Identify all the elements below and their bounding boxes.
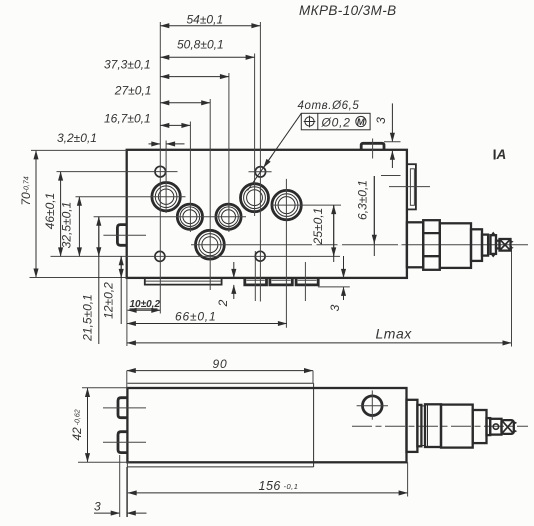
body outline (top view) xyxy=(127,150,407,278)
axis line P6/stack y=244.7 xyxy=(191,244,528,246)
svg-text:4отв.Ø6,5: 4отв.Ø6,5 xyxy=(298,100,360,112)
left tab (top view) xyxy=(117,225,127,246)
svg-text:МКРВ-10/3М-В: МКРВ-10/3М-В xyxy=(299,3,397,18)
svg-text:66±0,1: 66±0,1 xyxy=(175,310,216,324)
right slot plate xyxy=(407,164,416,209)
sleeve (front) xyxy=(441,405,473,448)
left tab centerline xyxy=(103,234,146,236)
dim 10±0,2 xyxy=(128,299,161,310)
foot bracket B2 xyxy=(270,278,292,285)
hole H3 xyxy=(155,251,165,261)
right slot centerline xyxy=(389,186,430,188)
flange plate xyxy=(407,400,418,452)
svg-text:А: А xyxy=(496,147,507,162)
sleeve xyxy=(440,223,471,268)
svg-text:3: 3 xyxy=(328,304,342,311)
extension line col x=228.9 xyxy=(228,73,230,232)
foot centerline f1 xyxy=(254,251,256,301)
dim 70 -0,74 xyxy=(19,150,127,277)
pad top line xyxy=(127,382,313,384)
svg-text:3: 3 xyxy=(374,117,388,124)
dim 21,5±0,1 xyxy=(81,217,99,344)
valve stack (top view): neck xyxy=(407,222,423,267)
tip neck xyxy=(496,241,500,249)
svg-text:Ø0,2: Ø0,2 xyxy=(321,116,351,130)
port P2 xyxy=(177,204,202,229)
bottom lip (left) xyxy=(145,279,222,285)
svg-text:27±0,1: 27±0,1 xyxy=(114,84,152,98)
foot bracket B1 xyxy=(245,278,267,285)
svg-text:21,5±0,1: 21,5±0,1 xyxy=(81,294,95,342)
dim 25±0,1 xyxy=(311,205,334,262)
dim 27±0,1 xyxy=(114,84,210,103)
dim 3 (bleed tab) xyxy=(374,103,401,168)
spindle with lockwire lugs xyxy=(491,232,497,258)
port P4 xyxy=(241,184,269,212)
dim 3 (feet) xyxy=(318,256,350,311)
front port circle xyxy=(357,390,388,419)
row line P5 y=205.1 xyxy=(272,204,341,206)
port P6 xyxy=(196,230,225,259)
step2 (front) xyxy=(487,418,491,435)
svg-text:6,3±0,1: 6,3±0,1 xyxy=(356,180,370,220)
hole H2 xyxy=(255,167,265,177)
lockwire boss with hole xyxy=(490,419,501,435)
step (front) xyxy=(473,410,487,443)
extension line col x=160.3 (datum) xyxy=(159,22,161,314)
svg-text:46±0,1: 46±0,1 xyxy=(43,193,57,230)
view arrow А xyxy=(495,147,507,162)
dim 32,5±0,1 xyxy=(60,197,80,257)
step cylinder xyxy=(471,229,482,261)
svg-text:3: 3 xyxy=(94,500,101,514)
extension line col x=260.4 xyxy=(259,22,261,302)
svg-text:32,5±0,1: 32,5±0,1 xyxy=(60,202,74,249)
washer xyxy=(417,405,421,446)
dim 90 xyxy=(127,357,313,388)
svg-text:10±0,2: 10±0,2 xyxy=(130,299,161,310)
port P5 xyxy=(272,190,301,219)
stack axis line (front) xyxy=(352,425,528,427)
leader to hole xyxy=(248,113,302,190)
dim 37,3±0,1 xyxy=(104,57,229,76)
dim 3,2±0,1 xyxy=(57,131,185,145)
dim 156 -0,1 xyxy=(127,462,407,517)
dim 46±0,1 xyxy=(43,172,61,257)
extension line col x=254.6 xyxy=(254,54,256,217)
body outline (front view) xyxy=(127,388,406,462)
row line H1 y=171.6 xyxy=(57,171,178,173)
dim 16,7±0,1 xyxy=(104,111,190,125)
svg-text:12±0,2: 12±0,2 xyxy=(102,282,116,319)
dim 66±0,1 xyxy=(127,310,287,324)
dim 3 (tab offset) xyxy=(94,455,147,517)
foot bracket B3 xyxy=(296,278,318,285)
row line P1 y=196.7 xyxy=(76,196,186,198)
dim 42 -0,62 xyxy=(70,388,130,463)
feature control frame xyxy=(301,113,370,130)
knurled tip with cross xyxy=(500,239,514,251)
svg-text:37,3±0,1: 37,3±0,1 xyxy=(104,57,151,71)
dim 50,8±0,1 xyxy=(160,38,254,58)
dim 54±0,1 xyxy=(160,13,260,27)
svg-text:16,7±0,1: 16,7±0,1 xyxy=(104,111,151,125)
bleed tab on top edge xyxy=(361,143,384,150)
port P1 xyxy=(152,183,180,211)
pad right edge xyxy=(313,383,315,467)
pad bottom line xyxy=(127,466,313,468)
ext body left edge down xyxy=(126,278,128,346)
extension line col x=210.2 xyxy=(209,99,211,290)
svg-text:2: 2 xyxy=(216,299,230,307)
hole H1 xyxy=(155,166,166,177)
row line H2 y=171.8 xyxy=(249,171,272,173)
svg-text:156 -0,1: 156 -0,1 xyxy=(259,479,299,493)
knurled tip with cross (front) xyxy=(502,420,518,434)
row line bottom holes y=256.4 xyxy=(51,255,341,257)
left tab T1 xyxy=(118,398,128,418)
hex locknut xyxy=(423,220,440,270)
nut cylinder xyxy=(425,404,441,447)
svg-text:50,8±0,1: 50,8±0,1 xyxy=(177,38,224,52)
left tab T2 xyxy=(118,432,128,453)
svg-text:90: 90 xyxy=(213,357,228,371)
bleed tab centerline xyxy=(372,139,374,159)
svg-text:54±0,1: 54±0,1 xyxy=(187,13,224,27)
dim 6,3±0,1 xyxy=(356,176,401,257)
dim 2 (lip) xyxy=(216,262,234,307)
foot centerline f3 xyxy=(304,262,306,301)
hole H4 xyxy=(255,251,265,261)
extension line col x=286.4 (P5) xyxy=(285,179,287,328)
svg-text:25±0,1: 25±0,1 xyxy=(311,208,325,246)
extension line col x=166.1 xyxy=(165,141,167,214)
svg-text:Lmax: Lmax xyxy=(376,326,413,342)
svg-text:3,2±0,1: 3,2±0,1 xyxy=(57,131,97,145)
dim 12±0,2 xyxy=(102,256,122,324)
svg-text:М: М xyxy=(357,117,366,128)
extension line col x=190.4 xyxy=(189,122,191,233)
port P3 xyxy=(216,204,241,229)
dim Lmax xyxy=(127,246,512,347)
step cylinder 2 xyxy=(482,235,488,256)
row line P2P3 y=216.7 xyxy=(94,216,246,218)
thin disc xyxy=(421,406,425,446)
